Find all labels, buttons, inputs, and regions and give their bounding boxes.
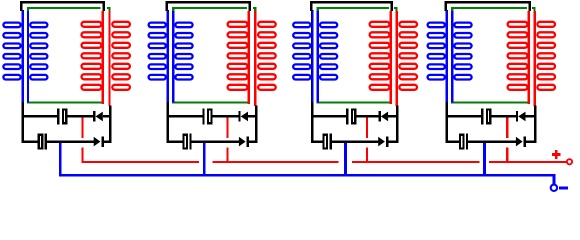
wire: blue - output bus — [59, 175, 554, 184]
transformer T2 core — [172, 8, 256, 103]
transformer T3 core — [317, 8, 398, 103]
wire: bottom row, stage 4 — [446, 140, 537, 142]
transformer T1 secondary winding — [82, 11, 130, 106]
wire: secondary-to-filter top link, stage 4 — [446, 2, 530, 11]
wire: red tap to +bus, stage 1 — [81, 118, 83, 162]
capacitor C3b — [324, 134, 332, 150]
wire: red + output bus — [81, 161, 567, 163]
wire: blue tap to -bus, stage 3 — [344, 143, 347, 177]
node: - output terminal — [551, 185, 568, 191]
capacitor C2b — [183, 134, 191, 150]
transformer T3 secondary winding — [370, 11, 417, 106]
transformer T4 primary winding — [428, 11, 472, 102]
diode D2b — [239, 136, 249, 147]
wire: left rail, stage 2 — [167, 10, 169, 143]
wire: right rail, stage 3 — [396, 106, 398, 143]
diode D4a — [516, 111, 526, 122]
transformer T4 core — [451, 8, 536, 103]
capacitor C4a — [481, 108, 490, 124]
transformer T2 secondary winding — [228, 11, 276, 106]
transformer T1 primary winding — [3, 11, 47, 102]
diode D4b — [516, 136, 526, 147]
wire: bottom row, stage 1 — [21, 140, 111, 142]
wire: bottom row, stage 3 — [311, 140, 398, 142]
capacitor C4b — [460, 134, 468, 150]
node: + output terminal — [552, 150, 572, 164]
capacitor C3a — [346, 108, 355, 124]
wire: secondary-to-filter top link, stage 1 — [21, 2, 103, 11]
transformer T4 secondary winding — [508, 11, 555, 106]
wire: top row, stage 1 — [21, 115, 111, 117]
wire: left rail, stage 3 — [311, 10, 313, 143]
wire: left rail, stage 4 — [446, 10, 448, 143]
transformer T1 core — [27, 8, 111, 103]
diode D1b — [94, 136, 104, 147]
diode D2a — [238, 111, 248, 122]
wire: red tap to +bus, stage 3 — [366, 118, 368, 164]
diode D1a — [93, 111, 103, 122]
wire: right rail, stage 4 — [534, 106, 536, 143]
wire: blue tap to -bus, stage 4 — [483, 143, 486, 177]
diode D3b — [378, 136, 388, 147]
capacitor C1b — [39, 134, 47, 150]
wire: blue tap to -bus, stage 2 — [203, 143, 206, 177]
wire: secondary-to-filter top link, stage 2 — [167, 2, 250, 11]
wire: right rail, stage 1 — [109, 106, 111, 143]
transformer T2 primary winding — [149, 11, 193, 102]
wire: top row, stage 2 — [167, 115, 258, 117]
wire: left rail, stage 1 — [21, 10, 23, 143]
wire: red tap to +bus, stage 2 — [226, 118, 228, 164]
transformer T3 primary winding — [293, 11, 337, 102]
wire: secondary-to-filter top link, stage 3 — [311, 2, 392, 11]
wire: top row, stage 4 — [446, 115, 537, 117]
wire: blue tap to -bus, stage 1 — [59, 143, 62, 176]
wire: red tap to +bus, stage 4 — [506, 118, 508, 164]
diode D3a — [379, 111, 389, 122]
capacitor C2a — [202, 108, 211, 124]
capacitor C1a — [57, 108, 66, 124]
wire: top row, stage 3 — [311, 115, 398, 117]
wire: bottom row, stage 2 — [167, 140, 258, 142]
wire: right rail, stage 2 — [255, 106, 257, 143]
